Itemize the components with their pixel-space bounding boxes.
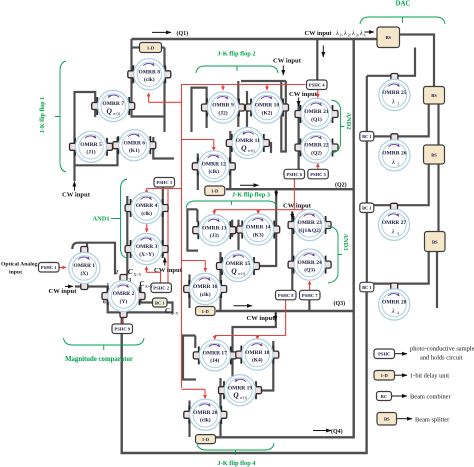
svg-text:OMRR 18: OMRR 18 <box>245 350 270 356</box>
red arrow OMRR12 <box>213 140 215 151</box>
red PSHC3 to PSHC2 <box>167 188 169 283</box>
beam combiner BC 1 row2 <box>360 203 374 213</box>
svg-text:AND1: AND1 <box>92 216 109 223</box>
wire FF3 left bracket <box>187 209 198 250</box>
svg-text:J-K flip flop 1: J-K flip flop 1 <box>40 97 46 133</box>
brace Magnitude comparator <box>64 338 145 350</box>
svg-text:BC 1: BC 1 <box>362 134 371 139</box>
svg-text:Q: Q <box>241 144 247 153</box>
svg-text:X<Y: X<Y <box>171 311 179 316</box>
svg-text:X>Y: X>Y <box>134 272 142 277</box>
OMRR 3 <box>125 233 168 264</box>
brace J-K flip flop 4 <box>197 443 274 455</box>
svg-text:λ: λ <box>391 159 395 166</box>
svg-text:Magnitude comparator: Magnitude comparator <box>65 356 133 363</box>
wire BS2 to BS3 <box>437 104 439 145</box>
wire PSHC4 feed <box>316 39 318 81</box>
svg-text:CW input: CW input <box>283 203 312 210</box>
wire BS1 to BS2 <box>400 35 435 87</box>
svg-text:J-K flip flop 4: J-K flip flop 4 <box>217 460 256 467</box>
svg-text:λ: λ <box>359 30 363 37</box>
legend BS box <box>377 413 397 426</box>
1-bit delay 1-D FF2 <box>205 186 225 196</box>
legend PSHC arrow <box>395 353 407 355</box>
svg-text:Q: Q <box>106 107 112 116</box>
OMRR 11 <box>226 127 269 158</box>
svg-text:λ: λ <box>391 308 395 315</box>
arrow Q4 out <box>313 430 331 432</box>
svg-text:(clk): (clk) <box>208 168 219 175</box>
OMRR 21 <box>295 98 338 129</box>
legend 1-D arrow <box>395 374 407 376</box>
wire OMRR16 right drop <box>219 252 221 311</box>
svg-text:(K1): (K1) <box>129 147 140 154</box>
red PSHC8 down <box>215 299 286 336</box>
svg-text:6: 6 <box>103 300 106 306</box>
svg-text:OMRR 2: OMRR 2 <box>113 291 135 297</box>
OMRR 26 <box>379 134 410 171</box>
arrow CW input FF4 <box>274 313 276 321</box>
OMRR 20 <box>184 399 227 430</box>
red OMRR4 branch <box>147 188 182 190</box>
svg-text:OMRR 12: OMRR 12 <box>202 162 227 168</box>
svg-text:n-(t): n-(t) <box>238 271 246 276</box>
OMRR 14 <box>237 214 280 245</box>
arrow CW input FF3 <box>275 191 277 197</box>
OMRR 13 <box>193 215 236 246</box>
OMRR 17 <box>193 340 236 371</box>
svg-text:PSHC 9: PSHC 9 <box>114 327 130 332</box>
wire FF4 CW route <box>233 311 276 379</box>
OMRR 9 <box>202 92 245 123</box>
svg-text:photo-conductive samples: photo-conductive samples <box>410 346 474 353</box>
red OMRR8 branch <box>149 101 182 103</box>
AND1 dash <box>111 218 117 220</box>
wire CW5 drop <box>298 103 300 169</box>
svg-text:OMRR 17: OMRR 17 <box>203 351 228 357</box>
svg-text:(clk): (clk) <box>144 76 155 83</box>
wire Q3 bus <box>216 310 354 312</box>
wire right bus rail <box>216 39 354 437</box>
wire FF3 right path <box>258 190 276 267</box>
red arrow OMRR9 <box>222 85 224 91</box>
svg-text:BC 1: BC 1 <box>155 300 164 305</box>
red arrow OMRR16 <box>204 261 206 272</box>
svg-text:OMRR 21: OMRR 21 <box>304 109 329 115</box>
arrow CW input FF1 <box>73 182 75 191</box>
1-bit delay 1-D FF1 <box>140 43 162 53</box>
svg-text:(Q1): (Q1) <box>311 116 322 123</box>
wire 1-D1 left link <box>132 46 140 48</box>
svg-text:OMRR 16: OMRR 16 <box>193 284 218 290</box>
brace AND1 <box>117 179 128 258</box>
svg-text:PSHC 8: PSHC 8 <box>278 293 294 298</box>
svg-text:CW input: CW input <box>289 91 318 98</box>
OMRR 15 <box>217 250 260 281</box>
svg-text:CW input: CW input <box>49 288 78 295</box>
svg-text:(X>Y): (X>Y) <box>139 251 154 258</box>
red arrow OMRR4 <box>146 189 148 195</box>
svg-text:λ: λ <box>343 30 347 37</box>
svg-text:C: C <box>140 280 145 288</box>
wire DAC rail mid1 <box>366 141 368 204</box>
wire BS4 down end <box>436 252 438 309</box>
svg-text:BC 1: BC 1 <box>362 285 371 290</box>
OMRR 10 <box>246 92 289 123</box>
svg-text:C: C <box>128 268 133 276</box>
wire OMRR20 right drop <box>219 378 221 437</box>
svg-text:OMRR 22: OMRR 22 <box>304 143 329 149</box>
red arrow OMRR10 <box>266 85 268 91</box>
wire FF4 left bracket <box>183 336 196 380</box>
OMRR 18 <box>236 339 279 370</box>
svg-text:1-D: 1-D <box>202 437 210 442</box>
svg-text:OMRR 15: OMRR 15 <box>226 261 251 267</box>
arrow CW input OMRR1 <box>65 285 73 287</box>
red arrow OMRR20 <box>204 389 206 398</box>
beam combiner BC 1 row1 <box>360 132 374 142</box>
wire mag comparator bottom <box>75 287 173 313</box>
legend 1-D box <box>374 371 395 381</box>
svg-text:PSHC 3: PSHC 3 <box>156 180 172 185</box>
wire PSHC9 stub <box>121 312 123 324</box>
svg-text:OMRR 25: OMRR 25 <box>382 90 407 96</box>
PSHC 4 <box>307 80 328 90</box>
wire OMRR1 top link <box>72 243 115 275</box>
red arrow into OMRR1 <box>60 267 66 269</box>
OMRR 23 <box>288 209 331 240</box>
wire DAC rail top <box>366 76 368 132</box>
legend BC box <box>377 392 392 401</box>
svg-text:n-(t): n-(t) <box>240 395 248 400</box>
arrow down PSHC4 line <box>322 46 324 58</box>
svg-text:PSHC 6: PSHC 6 <box>286 172 302 177</box>
arrow CW input OMRR3 <box>164 258 166 266</box>
svg-text:OMRR 10: OMRR 10 <box>255 103 280 109</box>
wire BS1 to OMRR25 <box>367 48 415 76</box>
svg-text:BS: BS <box>385 35 391 40</box>
svg-text:PSHC: PSHC <box>378 352 390 357</box>
svg-text:OMRR 3: OMRR 3 <box>136 244 158 250</box>
svg-text:(J2): (J2) <box>218 109 227 116</box>
PSHC 6 <box>284 169 305 179</box>
svg-text:BS: BS <box>432 239 438 244</box>
svg-text:PSHC 2: PSHC 2 <box>153 286 169 291</box>
svg-text:(J1): (J1) <box>86 149 95 156</box>
svg-text:Beam combiner: Beam combiner <box>410 394 452 401</box>
svg-text:n-(t): n-(t) <box>248 148 256 153</box>
legend BS arrow <box>397 418 412 420</box>
svg-text:and holds circuit: and holds circuit <box>420 355 463 362</box>
red PSHC7 to OMRR24 <box>309 281 311 290</box>
svg-text:λ: λ <box>351 30 355 37</box>
svg-text:3: 3 <box>129 278 132 284</box>
svg-text:CW input: CW input <box>305 30 333 37</box>
wire OMRR11 out L <box>267 143 272 153</box>
svg-text:OMRR 9: OMRR 9 <box>212 103 234 109</box>
PSHC 3 <box>154 178 175 188</box>
wire BS4 to row4 <box>374 252 429 284</box>
svg-text:(Q1): (Q1) <box>177 30 189 37</box>
svg-text:C: C <box>165 307 170 315</box>
arrow Q2 out <box>240 184 259 186</box>
wire BS2 to row2 <box>373 104 429 136</box>
red OMRR3 to PSHC2 <box>146 272 160 283</box>
svg-text:2: 2 <box>397 162 399 166</box>
red PSHC4 to OMRR21 <box>317 89 319 92</box>
svg-text:1-bit delay unit: 1-bit delay unit <box>410 373 449 380</box>
OMRR 22 <box>295 132 338 163</box>
wire bottom frame <box>122 291 367 453</box>
svg-text:OMRR 24: OMRR 24 <box>297 260 322 266</box>
svg-text:(Q1&Q2): (Q1&Q2) <box>298 227 320 234</box>
OMRR 12 <box>192 151 235 182</box>
wire FF1 bottom rail <box>75 137 118 165</box>
svg-text:Q: Q <box>233 391 239 400</box>
beam splitter BS 1 <box>377 27 400 48</box>
wire DAC rail mid2 <box>366 212 368 283</box>
PSHC 1 <box>39 263 60 273</box>
svg-text:4: 4 <box>397 312 399 316</box>
arrow Q3 out <box>234 305 253 307</box>
PSHC 9 <box>112 324 133 334</box>
beam combiner BC 1 row3 <box>360 282 374 292</box>
wire FF2 mid pair a <box>237 81 239 127</box>
PSHC 7 <box>300 290 321 300</box>
red PSHC1 out <box>59 267 63 269</box>
wire FF3 mid pair b <box>237 220 239 254</box>
red arrow OMRR18 <box>256 336 258 340</box>
svg-text:λ: λ <box>335 30 339 37</box>
red clock trunk <box>182 85 306 388</box>
OMRR 1 <box>69 247 100 290</box>
wire AND1 column <box>126 196 128 275</box>
1-bit delay 1-D FF4 <box>196 435 216 444</box>
beam splitter BS 3 <box>424 145 445 164</box>
wire Q2 bus <box>226 188 354 190</box>
red arrow OMRR3 bottom <box>145 267 147 273</box>
svg-text:Q: Q <box>231 267 237 276</box>
brace J-K flip flop 1 <box>55 61 66 172</box>
svg-text:PSHC 4: PSHC 4 <box>309 83 325 88</box>
svg-text:(X): (X) <box>80 270 88 277</box>
red to OMRR23 <box>294 209 309 211</box>
svg-text:(J3): (J3) <box>210 232 219 239</box>
svg-text:1-D: 1-D <box>202 309 210 314</box>
brace AND3 <box>328 226 342 283</box>
red arrow OMRR13 <box>213 210 215 214</box>
svg-text:(J4): (J4) <box>210 357 219 364</box>
brace J-K flip flop 3 <box>186 201 277 208</box>
OMRR 28 <box>379 283 410 320</box>
svg-text:CW input: CW input <box>273 57 302 64</box>
svg-text:DAC: DAC <box>396 1 411 8</box>
red OMRR4 to OMRR3 arrow <box>146 224 148 232</box>
red arrow OMRR21 <box>317 92 319 98</box>
svg-text:X=Y: X=Y <box>145 284 153 289</box>
red arrow OMRR14 <box>257 210 259 214</box>
wire PSHC3 to OMRR4 OMRR3 column <box>162 187 164 256</box>
svg-text:1: 1 <box>397 102 399 106</box>
svg-text:Optical Analog: Optical Analog <box>1 262 38 268</box>
OMRR 8 <box>128 59 171 90</box>
wire FF4 K to Q <box>259 341 273 391</box>
svg-text:PSHC 7: PSHC 7 <box>302 293 318 298</box>
svg-text:CW input: CW input <box>154 267 183 274</box>
OMRR 16 <box>184 273 227 304</box>
beam combiner BC 1 magnitude <box>153 298 168 307</box>
red OMRR16 branch <box>182 260 206 262</box>
wire FF1 clk loop <box>132 39 165 132</box>
svg-text:J-K flip flop 2: J-K flip flop 2 <box>217 51 255 58</box>
svg-text:OMRR 23: OMRR 23 <box>297 220 322 226</box>
svg-text:OMRR 14: OMRR 14 <box>246 225 271 231</box>
OMRR 4 <box>125 192 168 223</box>
svg-text:OMRR 19: OMRR 19 <box>228 385 253 391</box>
red PSHC5 to OMRR22 <box>317 164 319 170</box>
arrow CW top right <box>365 31 375 33</box>
wire PSHC7 bottom <box>308 299 310 311</box>
wire OMRR12 right drop <box>229 131 231 189</box>
svg-text:OMRR 20: OMRR 20 <box>193 410 218 416</box>
svg-text:AND3: AND3 <box>342 233 349 250</box>
svg-text:(Q3): (Q3) <box>334 300 346 307</box>
svg-text:(K4): (K4) <box>252 356 263 363</box>
svg-text:PSHC 1: PSHC 1 <box>41 265 57 270</box>
wire FF2 mid pair b <box>246 91 248 156</box>
OMRR 5 <box>70 131 113 162</box>
svg-text:λ: λ <box>391 99 395 106</box>
PSHC 2 <box>151 283 172 293</box>
svg-text:4: 4 <box>364 33 366 37</box>
red OMRR20 branch <box>182 388 206 390</box>
brace AND2 <box>331 100 344 153</box>
svg-text:(Q2): (Q2) <box>335 182 347 189</box>
PSHC 5 <box>308 169 329 179</box>
svg-text:1: 1 <box>107 283 110 289</box>
red OMRR2 to PSHC9 <box>122 311 124 325</box>
wire top CW bus <box>132 38 378 40</box>
svg-text:1-D: 1-D <box>211 189 219 194</box>
wire FF2 left bracket <box>192 88 207 132</box>
svg-text:(Q4): (Q4) <box>331 428 343 435</box>
svg-text:OMRR 26: OMRR 26 <box>382 151 407 157</box>
svg-text:OMRR 13: OMRR 13 <box>202 225 227 231</box>
svg-text:(clk): (clk) <box>141 210 152 217</box>
svg-text:OMRR 4: OMRR 4 <box>136 203 158 209</box>
svg-text:CW input: CW input <box>247 315 276 322</box>
svg-text:AND2: AND2 <box>345 112 352 129</box>
brace J-K flip flop 2 <box>196 66 278 73</box>
svg-text:(K2): (K2) <box>262 109 273 116</box>
svg-text:OMRR 5: OMRR 5 <box>80 142 102 148</box>
OMRR 25 <box>379 74 410 111</box>
wire FF2 top bar <box>241 80 286 82</box>
red arrow OMRR8 <box>148 93 150 102</box>
wire OMRR1 top stub <box>86 243 88 248</box>
wire OMRR16 left stub <box>188 274 190 308</box>
wire OMRR20 left stub <box>188 401 190 438</box>
red arrow OMRR23 <box>309 210 311 214</box>
svg-text:input: input <box>9 270 22 276</box>
wire FF1 left rail <box>75 92 96 181</box>
svg-text:PSHC 5: PSHC 5 <box>310 172 326 177</box>
arrow CW input OMRR21 <box>298 98 300 107</box>
wire BS3 to BS4 <box>437 164 439 232</box>
arrow CW to PSHC8 <box>291 212 293 220</box>
wire FF2 right U <box>281 81 286 152</box>
red OMRR12 branch <box>182 139 214 141</box>
legend BC arrow <box>392 395 407 397</box>
svg-text:1-D: 1-D <box>147 45 155 50</box>
OMRR 7 <box>92 90 135 121</box>
svg-text:λ: λ <box>391 228 395 235</box>
svg-text:BC 1: BC 1 <box>362 206 371 211</box>
svg-text:OMRR 6: OMRR 6 <box>124 140 146 146</box>
svg-text:OMRR 11: OMRR 11 <box>236 138 260 144</box>
svg-text:3: 3 <box>397 232 399 236</box>
svg-text:(Q3): (Q3) <box>304 266 315 273</box>
svg-text:1-D: 1-D <box>381 373 389 378</box>
svg-text:OMRR 8: OMRR 8 <box>139 70 161 76</box>
svg-text:(Q2): (Q2) <box>311 149 322 156</box>
brace DAC <box>360 17 445 24</box>
wire OMRR6 output <box>153 137 174 159</box>
wire BC1mag left link <box>141 285 153 303</box>
beam splitter BS 4 <box>425 232 446 252</box>
svg-text:OMRR 27: OMRR 27 <box>382 220 407 226</box>
1-bit delay 1-D FF3 <box>196 307 216 316</box>
svg-text:OMRR 28: OMRR 28 <box>382 300 407 306</box>
svg-text:BS: BS <box>431 152 437 157</box>
svg-text:n-(t): n-(t) <box>113 111 121 116</box>
OMRR 19 <box>219 375 262 406</box>
OMRR 24 <box>288 249 331 280</box>
OMRR 2 <box>102 275 145 318</box>
wire OMRR12 left stub <box>197 154 199 191</box>
svg-text:BC: BC <box>381 394 387 399</box>
arrow CW input FF2 <box>282 66 284 76</box>
OMRR 27 <box>378 203 409 240</box>
svg-text:(K3): (K3) <box>253 231 264 238</box>
svg-text:OMRR 1: OMRR 1 <box>74 263 96 269</box>
svg-text:(clk): (clk) <box>200 417 211 424</box>
svg-text:(clk): (clk) <box>200 291 211 298</box>
svg-text:2: 2 <box>116 270 119 276</box>
beam splitter BS 2 <box>424 87 445 105</box>
wire 1-D1 right link <box>162 46 165 48</box>
arrow Q1 out <box>152 31 171 33</box>
svg-text:J-K flip flop 3: J-K flip flop 3 <box>232 192 270 199</box>
svg-text:Beam splitter: Beam splitter <box>415 417 450 424</box>
legend PSHC box <box>374 349 395 359</box>
OMRR 6 <box>113 130 156 161</box>
wire FF3 mid pair a <box>231 220 233 237</box>
wire CW-FF3 to PSHC8 <box>291 212 293 291</box>
svg-text:BS: BS <box>431 93 437 98</box>
PSHC 8 <box>276 290 297 300</box>
svg-text:(Y): (Y) <box>120 298 128 305</box>
red arrow OMRR17 <box>214 336 216 340</box>
svg-text:CW input: CW input <box>62 192 91 199</box>
red PSHC6 down <box>214 178 294 210</box>
svg-text:BS: BS <box>384 417 390 422</box>
wire BS3 to row3 <box>373 164 429 205</box>
